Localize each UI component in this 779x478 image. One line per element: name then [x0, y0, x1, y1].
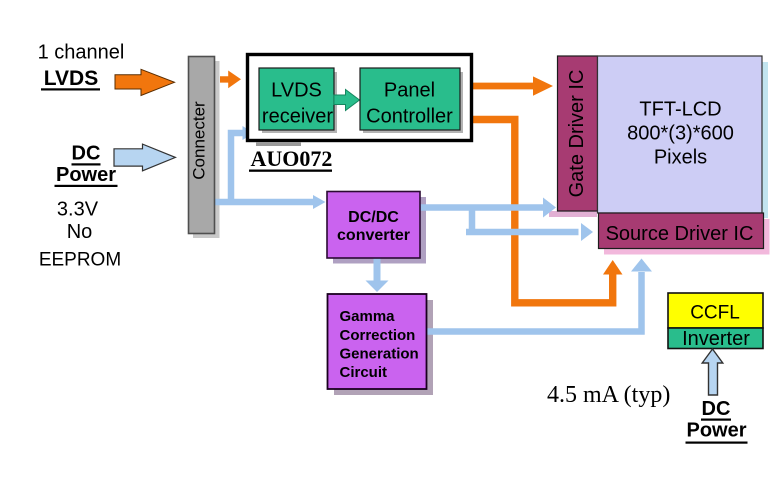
svg-text:Controller: Controller — [366, 106, 453, 128]
svg-text:Gamma: Gamma — [340, 308, 396, 325]
shadow of Gamma box — [334, 300, 433, 395]
svg-text:Power: Power — [686, 420, 746, 442]
AUO072 module box — [248, 55, 472, 141]
shadow of AUO072 module box (partial, bottom-left) — [256, 143, 301, 147]
DC/DC converter box — [327, 192, 420, 259]
shadow of Gate Driver IC (pink, below) — [549, 211, 597, 217]
svg-text:Power: Power — [56, 164, 116, 186]
svg-text:Generation: Generation — [340, 345, 419, 362]
shadow of LVDS receiver box — [262, 72, 337, 133]
LVDS receiver box — [259, 68, 334, 130]
svg-text:Source Driver IC: Source Driver IC — [606, 223, 754, 245]
svg-text:Circuit: Circuit — [340, 364, 388, 381]
svg-text:LVDS: LVDS — [44, 67, 98, 90]
green arrow LVDS receiver to Panel Controller — [334, 90, 360, 111]
svg-text:1 channel: 1 channel — [38, 42, 125, 64]
wire: blue branch to Source Driver IC — [466, 205, 579, 232]
Gamma Correction Generation Circuit box — [328, 294, 427, 389]
wire: blue from Gamma circuit up into Source Driver IC — [425, 272, 642, 332]
shadow of DC/DC converter box — [333, 197, 426, 264]
wire: blue DC/DC to Gate Driver IC — [420, 204, 544, 211]
blue block arrow up: DC power to Inverter — [702, 349, 723, 395]
svg-text:Pixels: Pixels — [654, 147, 707, 169]
svg-text:DC/DC: DC/DC — [348, 209, 399, 226]
orange block arrow: LVDS input — [115, 69, 175, 95]
Source Driver IC box — [599, 213, 764, 249]
shadow of Source Driver IC (pink, right+bottom) — [763, 219, 770, 254]
svg-text:No: No — [67, 221, 93, 243]
wire: blue down arrow DC/DC to Gamma — [374, 258, 381, 281]
svg-text:AUO072: AUO072 — [251, 146, 333, 171]
svg-text:EEPROM: EEPROM — [39, 250, 121, 271]
svg-text:CCFL: CCFL — [690, 303, 740, 324]
svg-text:DC: DC — [702, 398, 731, 420]
svg-text:Panel: Panel — [384, 80, 435, 102]
svg-text:LVDS: LVDS — [271, 80, 322, 102]
svg-text:converter: converter — [337, 227, 410, 244]
small orange arrow Connecter to AUO072 — [220, 71, 241, 89]
wire: blue branch up into AUO072 module — [231, 133, 243, 205]
svg-text:Correction: Correction — [340, 327, 416, 344]
shadow of Panel Controller box — [363, 72, 463, 133]
svg-text:Connecter: Connecter — [190, 101, 209, 180]
CCFL box — [668, 293, 763, 328]
wire: orange elbow from AUO072 module down and into Source Driver IC — [471, 120, 613, 303]
svg-text:TFT-LCD: TFT-LCD — [639, 99, 721, 121]
blue block arrow: DC power input — [114, 144, 175, 171]
svg-text:3.3V: 3.3V — [57, 199, 99, 221]
TFT-LCD box — [598, 56, 763, 213]
svg-text:receiver: receiver — [262, 106, 333, 128]
svg-text:Gate Driver IC: Gate Driver IC — [566, 70, 588, 198]
svg-text:Inverter: Inverter — [682, 328, 750, 350]
Gate Driver IC box — [558, 56, 598, 211]
svg-text:DC: DC — [72, 143, 101, 165]
wire: blue from Connecter to DC/DC converter — [215, 199, 314, 206]
wire: orange arrow AUO072 to Gate Driver IC — [471, 83, 534, 90]
connector (gray vertical box) — [189, 57, 215, 234]
svg-text:4.5 mA (typ): 4.5 mA (typ) — [547, 382, 670, 408]
Inverter box — [668, 328, 763, 349]
svg-text:800*(3)*600: 800*(3)*600 — [627, 123, 734, 145]
Panel Controller box — [360, 68, 460, 130]
shadow of TFT-LCD box (pale cyan, right) — [762, 62, 769, 218]
shadow of Connecter box — [193, 61, 220, 238]
